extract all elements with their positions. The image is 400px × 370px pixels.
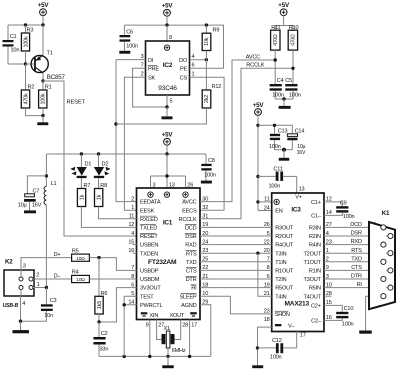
svg-text:C1+: C1+	[311, 200, 321, 206]
wire RTS/T3IN	[200, 252, 272, 254]
svg-text:C1–: C1–	[311, 214, 322, 220]
junction R1/R2	[41, 114, 44, 117]
svg-text:C5: C5	[285, 78, 292, 84]
svg-text:AVCC: AVCC	[246, 54, 260, 60]
svg-text:3: 3	[141, 54, 144, 60]
svg-text:RXD: RXD	[351, 239, 362, 245]
svg-text:+5V: +5V	[162, 132, 174, 139]
wire +5V split	[275, 16, 293, 31]
wire +5V IC2	[166, 16, 168, 25]
wire C4/C5 gnd	[275, 98, 293, 100]
ground T1 divider	[37, 116, 48, 126]
resistor R10	[288, 25, 298, 84]
svg-text:K2: K2	[5, 258, 13, 265]
svg-text:CS: CS	[180, 75, 188, 81]
junction VCC IC3	[256, 200, 259, 203]
svg-text:T2IN: T2IN	[275, 277, 286, 283]
wire K2 pin4 gnd	[20, 296, 22, 321]
svg-text:C11: C11	[273, 166, 282, 172]
svg-text:RCCLK: RCCLK	[179, 217, 197, 223]
junction C13/C14 gnd	[282, 148, 286, 152]
svg-text:1: 1	[192, 71, 195, 77]
svg-text:TXD: TXD	[186, 260, 197, 266]
svg-text:100n: 100n	[269, 184, 281, 190]
wire C13/C14 gnd	[275, 149, 293, 151]
wire rail to C1/R3	[8, 24, 43, 26]
svg-text:DCD: DCD	[350, 222, 362, 228]
svg-text:C7: C7	[33, 189, 40, 195]
svg-text:+5V: +5V	[253, 102, 265, 109]
svg-text:32: 32	[202, 205, 208, 211]
svg-text:DSR: DSR	[351, 231, 362, 237]
capacitor C14 electrolytic	[287, 129, 306, 156]
svg-text:RI: RI	[357, 282, 363, 288]
wire emitter to +5V	[42, 25, 44, 55]
svg-text:1: 1	[131, 205, 134, 211]
svg-text:+5V: +5V	[278, 2, 290, 9]
svg-text:16V: 16V	[32, 202, 42, 208]
IC3 MAX213	[264, 193, 332, 332]
wire AVCC net	[200, 54, 275, 201]
svg-text:T1OUT: T1OUT	[303, 260, 321, 266]
junction IC2 gnd	[165, 105, 168, 108]
svg-text:IC3: IC3	[291, 207, 301, 214]
wire C2- pin 16	[324, 318, 342, 320]
svg-text:C2–: C2–	[311, 319, 322, 325]
wire DTR to K1 pin 4	[324, 274, 381, 280]
svg-text:2: 2	[131, 196, 134, 202]
svg-text:33n: 33n	[100, 347, 109, 353]
junction D1	[80, 152, 83, 155]
svg-text:28: 28	[182, 322, 188, 328]
svg-text:R4: R4	[72, 270, 79, 276]
capacitor C10	[336, 306, 353, 328]
wire RXD to K1 pin 2	[324, 239, 381, 245]
wire RXD/R4OUT	[200, 244, 272, 246]
svg-text:FT232AM: FT232AM	[148, 259, 177, 266]
svg-text:RTS: RTS	[186, 251, 197, 257]
junction +5V IC1	[165, 152, 168, 155]
junction VBUS	[45, 286, 48, 289]
svg-text:TXLED: TXLED	[140, 226, 157, 232]
svg-text:11: 11	[264, 197, 269, 203]
svg-text:R7: R7	[84, 183, 91, 189]
svg-text:1k: 1k	[79, 194, 85, 200]
resistor R12	[116, 60, 221, 124]
svg-text:4: 4	[22, 301, 25, 307]
svg-text:DO: DO	[179, 58, 188, 64]
wire IC2 CS to EECS	[190, 77, 225, 210]
svg-text:100n: 100n	[204, 172, 216, 178]
junction C13 rail	[256, 124, 259, 127]
wire C1- pin 14	[324, 213, 342, 216]
resistor R5	[72, 248, 90, 262]
wire gnd rail	[99, 355, 211, 357]
svg-text:IC1: IC1	[163, 219, 173, 226]
svg-text:T1IN: T1IN	[275, 260, 286, 266]
svg-text:T3IN: T3IN	[275, 251, 286, 257]
stub TXDEN pin 16	[133, 252, 137, 254]
wire IC2 PE to +5V	[190, 67, 224, 69]
svg-text:MAX213: MAX213	[285, 301, 310, 308]
svg-text:USBDM: USBDM	[140, 277, 160, 283]
wire CTS to K1 pin 8	[324, 265, 388, 271]
wire DSR/R2OUT	[200, 235, 272, 237]
svg-text:C3: C3	[50, 298, 57, 304]
junction C11	[256, 175, 259, 178]
resistor R8	[95, 178, 137, 219]
junction DI/R12	[114, 122, 117, 125]
wire DSR to K1 pin 6	[324, 231, 388, 237]
wire RTS to K1 pin 7	[324, 248, 388, 254]
wire RCCLK net	[200, 63, 293, 219]
junction +5V rail	[41, 23, 44, 26]
wire V- pin 17	[297, 332, 306, 348]
svg-text:TXDEN: TXDEN	[140, 251, 158, 257]
svg-text:L1: L1	[51, 181, 57, 187]
svg-text:DCD: DCD	[185, 226, 197, 232]
wire TEST/PWRCTL gnd	[124, 296, 136, 356]
wire K1 inner pin 7	[386, 252, 388, 254]
svg-text:RESET: RESET	[140, 234, 158, 240]
wire K2 pin1 VBUS	[34, 287, 46, 289]
svg-text:C9: C9	[340, 201, 347, 207]
junction R3 top	[24, 23, 27, 26]
svg-text:R5IN: R5IN	[309, 286, 321, 292]
wire K1 inner pin 6	[386, 235, 388, 237]
svg-text:RTS: RTS	[351, 248, 362, 254]
svg-text:+5V: +5V	[38, 2, 50, 9]
svg-text:17: 17	[300, 333, 306, 339]
svg-text:USBEN: USBEN	[140, 243, 158, 249]
svg-text:100n: 100n	[269, 144, 281, 150]
svg-text:10k: 10k	[204, 37, 210, 46]
connector K2 USB-B	[3, 258, 40, 309]
svg-text:DTR: DTR	[351, 274, 362, 280]
transistor T1 BC857	[31, 51, 65, 81]
junction C13	[273, 124, 276, 127]
junction R6 top	[97, 256, 100, 259]
capacitor C5	[285, 78, 300, 99]
svg-text:100n: 100n	[343, 214, 355, 220]
IC1 FT232AM	[128, 188, 208, 320]
svg-text:XOUT: XOUT	[170, 313, 186, 319]
wire K2 pin3 D+	[21, 252, 72, 270]
svg-text:R5: R5	[72, 248, 79, 254]
ground C8	[201, 181, 212, 184]
capacitor C6	[120, 25, 139, 51]
svg-text:470Ω: 470Ω	[291, 34, 297, 46]
svg-text:10Ω: 10Ω	[76, 277, 85, 283]
junction RTS/T3IN	[256, 252, 259, 255]
svg-text:10µ: 10µ	[18, 202, 28, 208]
svg-text:3: 3	[23, 263, 26, 269]
wire IC2 DO	[190, 59, 207, 61]
svg-text:RI: RI	[191, 286, 197, 292]
capacitor C3	[21, 288, 57, 322]
svg-text:PE: PE	[180, 67, 188, 73]
svg-text:17: 17	[191, 322, 197, 328]
svg-text:1k: 1k	[96, 194, 102, 200]
svg-text:AVCC: AVCC	[182, 200, 196, 206]
svg-text:XIN: XIN	[150, 313, 159, 319]
svg-text:6MHz: 6MHz	[172, 348, 186, 354]
wire IC2 pin 8	[167, 25, 172, 41]
+5V supply symbol (R11/R10)	[278, 2, 290, 16]
svg-text:USBDP: USBDP	[140, 269, 159, 275]
junction K2 gnd	[19, 320, 22, 323]
wire RTS to T4IN	[258, 253, 272, 296]
junction D2	[97, 152, 100, 155]
wire collector	[42, 73, 44, 81]
svg-text:5: 5	[170, 98, 173, 104]
svg-text:R1: R1	[45, 84, 52, 90]
svg-text:D2: D2	[102, 161, 109, 167]
capacitor C11	[258, 166, 297, 189]
ground C4/C5	[279, 99, 291, 109]
svg-text:4: 4	[192, 54, 195, 60]
wire +5V rail IC2	[124, 25, 223, 68]
svg-text:V+: V+	[295, 195, 302, 201]
inductor L1	[44, 154, 56, 288]
svg-text:10n: 10n	[44, 313, 53, 319]
svg-text:C14: C14	[295, 129, 305, 135]
wire IC2 pin 5	[167, 95, 173, 107]
junction rail TEST	[123, 355, 126, 358]
junction R9 top	[205, 23, 208, 26]
svg-text:C10: C10	[344, 306, 354, 312]
junction rail pin9	[148, 355, 151, 358]
wire TXD/T1IN	[200, 261, 272, 263]
capacitor C1	[3, 25, 26, 64]
svg-text:100n: 100n	[126, 43, 138, 49]
crystal X1	[162, 326, 186, 356]
wire +5V IC1	[166, 145, 168, 154]
svg-text:T3OUT: T3OUT	[303, 277, 321, 283]
capacitor C7 electrolytic	[18, 176, 47, 211]
svg-text:EECS: EECS	[182, 208, 197, 214]
svg-text:7: 7	[141, 63, 144, 69]
svg-text:R10: R10	[289, 25, 299, 31]
capacitor C12	[258, 338, 297, 361]
svg-text:BC857: BC857	[47, 74, 66, 81]
wire IC1 pin 17 gnd	[190, 320, 198, 357]
wire AGND	[200, 305, 211, 357]
net label RESET	[67, 100, 86, 106]
resistor R7	[77, 178, 136, 227]
stub T4OUT pin 28	[324, 295, 331, 297]
svg-text:C1: C1	[10, 34, 17, 40]
svg-text:V–: V–	[288, 323, 296, 329]
wire K1 pin 5 gnd	[366, 291, 381, 331]
wire RI to K1 pin 9	[324, 282, 388, 288]
ground IC3	[252, 365, 263, 368]
LED D2	[94, 154, 111, 178]
wire IC1 pin 9 gnd	[146, 320, 150, 357]
wire IC1 power pins	[151, 154, 194, 188]
LED D1	[70, 154, 91, 178]
resistor R9	[202, 25, 219, 60]
svg-text:R2IN: R2IN	[309, 234, 321, 240]
+5V supply symbol (IC1)	[162, 132, 174, 146]
ground C6	[119, 51, 130, 54]
svg-text:R3IN: R3IN	[309, 226, 321, 232]
wire +5V rail IC1	[46, 153, 206, 155]
wire R4 to USBDM	[89, 278, 136, 280]
svg-text:R1OUT: R1OUT	[275, 269, 294, 275]
junction IC3 gnd	[256, 346, 259, 349]
junction T1 base	[24, 62, 27, 65]
svg-text:C4: C4	[277, 78, 284, 84]
+5V supply symbol (IC3)	[253, 102, 265, 116]
svg-text:C6: C6	[126, 30, 133, 36]
wire K1 inner pin 8	[386, 269, 388, 271]
svg-text:PRE: PRE	[148, 67, 159, 73]
svg-text:100n: 100n	[289, 92, 301, 98]
svg-text:D+: D+	[54, 252, 61, 258]
wire CTS/R1OUT	[200, 269, 272, 271]
svg-text:10n: 10n	[11, 47, 20, 53]
junction DO/R9/R12	[205, 58, 208, 61]
wire K1 inner pin 9	[386, 287, 388, 289]
svg-text:4: 4	[131, 231, 134, 237]
resistor R4	[72, 270, 90, 284]
junction C2 top	[97, 320, 100, 323]
svg-text:R2: R2	[28, 84, 35, 90]
svg-text:100k: 100k	[23, 36, 29, 47]
capacitor C13	[269, 129, 288, 150]
capacitor C2	[93, 322, 108, 356]
svg-text:R4OUT: R4OUT	[275, 243, 294, 249]
svg-text:USB-B: USB-B	[3, 303, 19, 309]
svg-text:470Ω: 470Ω	[273, 34, 279, 46]
junction rail pin17	[188, 355, 191, 358]
junction IC1 power	[165, 174, 168, 177]
svg-text:DI: DI	[148, 58, 154, 64]
wire RESET net	[43, 81, 137, 236]
svg-text:93C46: 93C46	[158, 85, 177, 92]
resistor R6	[95, 258, 107, 314]
svg-text:R2OUT: R2OUT	[275, 234, 294, 240]
svg-text:RESET: RESET	[67, 100, 86, 106]
svg-text:1k5: 1k5	[97, 301, 103, 309]
junction PWRCTL	[123, 303, 126, 306]
svg-text:CTS: CTS	[351, 265, 362, 271]
wire IC2 DI to EEDATA	[116, 60, 146, 202]
svg-text:100k: 100k	[41, 93, 47, 104]
+5V supply symbol (T1 bias)	[38, 2, 50, 16]
junction AVCC/R11	[274, 58, 277, 61]
svg-text:R4IN: R4IN	[309, 243, 321, 249]
svg-text:TXD: TXD	[351, 256, 362, 262]
wire TXD to K1 pin 3	[324, 256, 381, 262]
resistor R11	[271, 25, 281, 84]
svg-text:SHDN: SHDN	[275, 312, 290, 318]
svg-text:C12: C12	[272, 338, 282, 344]
svg-text:+5V: +5V	[162, 3, 174, 10]
ground K1	[359, 331, 372, 334]
wire IC1 pin 28 XOUT	[174, 320, 188, 340]
wire +5V to rail	[42, 16, 44, 25]
ground K2	[12, 321, 29, 333]
junction +5V IC2	[165, 23, 168, 26]
svg-text:T2OUT: T2OUT	[303, 251, 321, 257]
svg-text:R9: R9	[213, 27, 220, 33]
resistor R3	[21, 25, 33, 64]
svg-text:2k2: 2k2	[204, 95, 210, 103]
svg-text:100n: 100n	[342, 322, 354, 328]
svg-text:D1: D1	[85, 161, 92, 167]
wire base	[26, 63, 36, 65]
connector K1 DB9	[369, 210, 395, 309]
wire DCD/R3OUT	[200, 226, 272, 228]
junction RCCLK/R10	[291, 67, 294, 70]
svg-text:T4IN: T4IN	[275, 294, 286, 300]
svg-text:16V: 16V	[297, 150, 306, 156]
svg-text:DSR: DSR	[185, 234, 196, 240]
svg-text:R1IN: R1IN	[309, 269, 321, 275]
svg-text:3V3OUT: 3V3OUT	[140, 286, 161, 292]
svg-text:SK: SK	[148, 75, 156, 81]
wire C2+ pin 15	[324, 305, 342, 311]
capacitor C4	[270, 78, 284, 99]
svg-text:2: 2	[141, 71, 144, 77]
svg-text:AGND: AGND	[181, 303, 197, 309]
ground C7	[24, 210, 36, 213]
wire R5 to USBDP	[89, 258, 136, 271]
capacitor C9	[336, 201, 354, 221]
svg-text:RCCLK: RCCLK	[246, 63, 264, 69]
svg-text:100n: 100n	[270, 355, 282, 361]
wire SLEEP to SHDN	[200, 296, 272, 314]
svg-text:C13: C13	[278, 129, 288, 135]
svg-text:D–: D–	[54, 273, 62, 279]
svg-text:24: 24	[264, 205, 270, 211]
wire C13/C14 branch	[258, 125, 292, 134]
junction C7	[45, 174, 48, 177]
ground C13/C14	[279, 150, 290, 161]
svg-text:9: 9	[146, 322, 149, 328]
svg-text:13: 13	[299, 186, 305, 192]
capacitor C8	[201, 154, 215, 181]
wire K2 pin2 D-	[34, 273, 72, 279]
IC2 93C46 EEPROM	[141, 41, 195, 95]
wire RI/R5OUT	[200, 287, 272, 289]
wire V+ pin 13	[297, 176, 305, 193]
junction C4/C5 gnd	[282, 97, 285, 100]
svg-text:K1: K1	[382, 210, 390, 217]
svg-text:EEDATA: EEDATA	[140, 200, 161, 206]
svg-text:R6: R6	[101, 291, 108, 297]
svg-text:10Ω: 10Ω	[76, 256, 85, 262]
+5V supply symbol (IC2)	[162, 3, 174, 17]
svg-text:2: 2	[36, 273, 39, 279]
svg-text:C2: C2	[101, 331, 108, 337]
wire IC2 SK to EESK	[124, 77, 145, 210]
svg-text:T1: T1	[47, 51, 53, 57]
wire IC1 pin 27 XIN	[157, 320, 165, 340]
svg-text:R8: R8	[100, 183, 107, 189]
svg-text:CTS: CTS	[186, 269, 197, 275]
svg-text:R5OUT: R5OUT	[275, 286, 294, 292]
wire 3V3OUT net	[99, 288, 137, 322]
svg-text:C2+: C2+	[311, 304, 321, 310]
wire VCC pin 11	[258, 201, 272, 203]
svg-text:18: 18	[264, 317, 270, 323]
wire DTR/T2IN	[200, 278, 272, 280]
svg-text:470k: 470k	[23, 93, 29, 104]
svg-text:PWRCTL: PWRCTL	[140, 303, 163, 309]
